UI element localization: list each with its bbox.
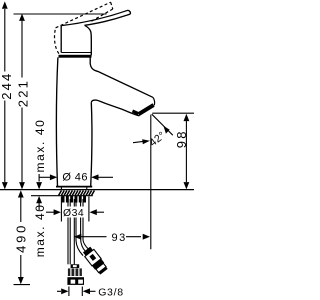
- dimension 221 bottom arrow: [19, 182, 25, 189]
- dashed raised lever tip face: [111, 2, 113, 9]
- dimension 93 right arrow: [143, 234, 150, 240]
- spout bottom edge: [91, 100, 139, 116]
- spout tip end face: [153, 97, 155, 105]
- dimension max40 lower arrow: [36, 196, 42, 203]
- spray angle ray: [152, 114, 173, 135]
- extension line 221: [14, 13, 107, 15]
- dimension max40 upper arrow: [36, 182, 42, 189]
- extension line spray horizontal: [152, 112, 194, 114]
- handle base left edge: [60, 26, 62, 53]
- extension line spray vertical: [150, 115, 152, 250]
- svg-text:G3/8: G3/8: [98, 287, 124, 299]
- G3/8 left arrow tail: [57, 290, 61, 292]
- lever handle bottom edge: [85, 14, 131, 25]
- dimension 244 line: [4, 9, 6, 182]
- svg-text:max. 40: max. 40: [33, 203, 47, 257]
- faucet base bottom bar: [56, 186, 92, 188]
- deck hatched strip: [59, 191, 95, 196]
- dimension dia34 right line: [97, 211, 105, 213]
- dimension 244 top arrow: [2, 1, 8, 8]
- svg-text:221: 221: [16, 79, 31, 107]
- dashed raised lever top edge: [56, 2, 111, 28]
- spray angle left arrow tail: [133, 141, 144, 142]
- G3/8 right arrow tail: [90, 290, 96, 292]
- dashed raised lever front arc: [55, 28, 59, 54]
- body right edge below spout: [91, 102, 92, 186]
- dimension max40 lower line: [38, 202, 40, 210]
- svg-text:244: 244: [0, 72, 14, 100]
- dimension dia34 label background: [62, 207, 84, 218]
- straight hose collar: [71, 264, 80, 268]
- aerator dark face: [138, 103, 155, 116]
- hose left right line: [73, 199, 75, 264]
- deck top line: [0, 189, 194, 191]
- hose left inner line: [69, 199, 71, 264]
- dimension 98 line: [185, 121, 187, 183]
- shank left edge above deck: [60, 188, 62, 191]
- shank right edge above deck: [86, 188, 88, 191]
- dimension 490 bottom arrow: [18, 277, 24, 284]
- deck bottom line: [31, 195, 93, 197]
- dimension dia34 left arrow: [54, 209, 61, 215]
- angled hose connector: [82, 246, 109, 275]
- dimension 221 top arrow: [19, 14, 25, 21]
- hose right left line: [76, 199, 83, 256]
- handle shoulder: [85, 25, 92, 55]
- hose right mid line: [81, 199, 86, 251]
- dimension max40 upper line: [38, 174, 40, 182]
- svg-text:max. 40: max. 40: [33, 119, 47, 173]
- extension line dia34 right: [88, 197, 90, 222]
- straight hose end block windows: [71, 280, 76, 284]
- dimension 221 line: [21, 21, 23, 182]
- dimension dia46 right arrow: [91, 174, 98, 180]
- svg-text:Ø34: Ø34: [63, 208, 84, 219]
- lever handle top edge: [61, 10, 128, 25]
- dimension 93 left arrow: [74, 234, 81, 240]
- dimension dia46 right line: [98, 176, 113, 178]
- dimension 490 line: [20, 198, 22, 278]
- G3/8 tick left: [68, 287, 70, 297]
- dimension 93 line: [75, 236, 142, 238]
- svg-text:Ø 46: Ø 46: [62, 172, 87, 184]
- dimension 490 top arrow: [18, 190, 24, 197]
- straight hose end block: [67, 277, 84, 285]
- G3/8 tick right: [81, 287, 83, 297]
- dimension dia46 left line: [39, 176, 50, 178]
- dimension dia34 right arrow: [90, 209, 97, 215]
- G3/8 right arrow: [83, 288, 90, 294]
- extension line hose end: [14, 284, 31, 286]
- dimension 98 bottom arrow: [184, 182, 190, 189]
- dimension dia34 left line: [46, 211, 55, 213]
- hose right outer line: [83, 199, 88, 249]
- body left edge: [56, 57, 57, 186]
- extension line dia34 left: [60, 197, 62, 222]
- svg-text:490: 490: [13, 223, 28, 253]
- cartridge ring top line: [61, 52, 91, 54]
- spray angle left arrow: [142, 139, 150, 144]
- G3/8 left arrow: [61, 288, 68, 294]
- svg-text:93: 93: [112, 232, 127, 244]
- spray angle ray arrow: [163, 126, 169, 134]
- dashed raised lever bottom edge: [92, 9, 113, 21]
- hose left outer line: [67, 199, 69, 264]
- mounting nut castellation: [62, 196, 86, 203]
- cartridge ring band: [59, 55, 92, 58]
- straight hose nut: [68, 268, 82, 276]
- straight hose nut white stripes: [71, 268, 79, 276]
- dimension 98 top arrow: [184, 114, 190, 121]
- spout top edge: [90, 57, 153, 97]
- dimension 244 bottom arrow: [2, 182, 8, 189]
- svg-text:98: 98: [174, 129, 189, 148]
- lever handle tip face: [128, 10, 130, 14]
- dimension dia46 left arrow: [50, 174, 57, 180]
